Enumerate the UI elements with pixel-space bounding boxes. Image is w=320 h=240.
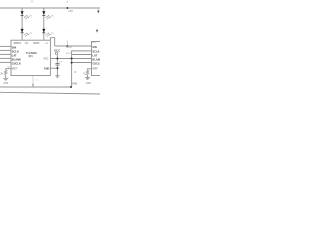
junction dot VCC row at cap (56, 58, 58, 60)
wire BLANK pin IC1 (0, 57, 11, 59)
LED D6 cropped column C bottom (96, 30, 99, 33)
LED D3 column B top (42, 11, 53, 19)
svg-text:IREF: IREF (92, 68, 98, 71)
wire LED column C cropped (97, 8, 99, 11)
ground R2 (85, 78, 90, 80)
junction dot GSCLK at bus (71, 62, 73, 64)
svg-text:GND: GND (3, 83, 8, 85)
junction dot cap bottom (57, 67, 59, 69)
wire SIN pin IC1 (0, 45, 11, 47)
wire GND stub below IC1 (32, 76, 34, 87)
svg-text:SOUT: SOUT (66, 47, 73, 49)
svg-text:BLANK: BLANK (92, 58, 100, 62)
svg-text:BLANK: BLANK (12, 58, 21, 62)
svg-text:SCLK: SCLK (92, 49, 99, 53)
wire GND pin IC1 to cap (50, 67, 57, 69)
junction dot bus to GND rail (70, 86, 72, 88)
svg-text:IREF: IREF (12, 68, 18, 71)
junction dot VCC row at bus (71, 58, 73, 60)
wire faint stub above dot (66, 41, 68, 47)
wire bottom signal line (0, 92, 100, 94)
svg-text:O: O (19, 42, 21, 45)
svg-text:OUT1: OUT1 (33, 42, 40, 45)
svg-text:....: .... (69, 30, 72, 32)
wire IREF IC2 (88, 69, 92, 71)
svg-text:5V: 5V (31, 1, 34, 4)
wire +5V top rail (0, 7, 100, 9)
wire LAT pin IC1 (0, 53, 11, 55)
wire SOUT jog IC1 to IC2 (50, 38, 54, 46)
svg-text:SIN: SIN (92, 45, 96, 49)
svg-text:(IC): (IC) (29, 55, 33, 58)
LED D1 column A top (21, 11, 32, 19)
wire SCLK pin IC1 (0, 49, 11, 51)
wire GSCLK to IC2 (72, 62, 92, 64)
svg-text:VCC: VCC (43, 58, 48, 61)
wire R2 to ground (87, 75, 89, 78)
wire cap vertical (56, 55, 58, 64)
svg-text:LAT: LAT (92, 53, 97, 57)
ground R1 (3, 78, 8, 80)
svg-text:SIN: SIN (12, 45, 16, 49)
svg-text:SCLK: SCLK (12, 49, 19, 53)
wire GSCLK pin IC1 (0, 61, 11, 63)
svg-text:GND: GND (86, 83, 91, 85)
ground cap C1 (55, 76, 59, 78)
wire R1 to ground (5, 75, 7, 78)
resistor R1 (4, 70, 7, 74)
svg-text:GSCLK: GSCLK (12, 62, 21, 66)
junction dot SIN line (67, 45, 69, 47)
LED D2 column A bottom (21, 29, 32, 37)
wire SIN line to IC2 (55, 45, 92, 47)
wire SCLK to IC2 (72, 51, 92, 87)
svg-text:OU: OU (25, 42, 29, 45)
IC1 box TLC5940 (11, 40, 50, 75)
wire LED column A (21, 8, 23, 40)
svg-text:....: .... (58, 30, 61, 32)
wire GND bottom rail (0, 86, 71, 88)
junction dot +5V rail (66, 7, 68, 9)
resistor R2 (86, 70, 89, 74)
LED D4 column B bottom (42, 29, 53, 37)
svg-text:OU: OU (92, 42, 96, 44)
LED D5 cropped column C top (97, 11, 99, 14)
svg-text:GSCLK: GSCLK (92, 62, 100, 66)
svg-text:VCC: VCC (54, 49, 61, 53)
svg-text:GND: GND (72, 83, 77, 85)
svg-text:LAT: LAT (12, 54, 17, 58)
VCC power symbol (54, 49, 61, 55)
wire LED column B (43, 8, 45, 40)
wire IREF IC1 (6, 69, 11, 71)
wire LAT to IC2 (72, 54, 92, 56)
wire VCC row (50, 58, 91, 60)
svg-text:SCLK: SCLK (66, 53, 72, 55)
capacitor C1 plates (55, 64, 59, 65)
IC2 box TLC5940 second (92, 42, 104, 76)
svg-text:GND: GND (44, 67, 50, 70)
svg-text:+5V: +5V (68, 9, 73, 13)
